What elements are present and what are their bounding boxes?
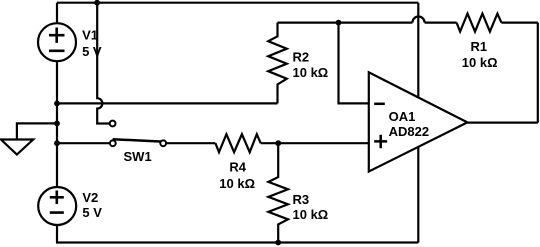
- wire R2 top to R1 line (left of hop): [278, 22, 413, 24]
- wire V1 top stem: [56, 3, 58, 24]
- svg-text:OA1: OA1: [389, 109, 416, 124]
- junction dot top rail to switch branch: [94, 0, 100, 6]
- wire hop to R1 left lead: [425, 22, 457, 24]
- wire hop over supply vertical: [412, 16, 424, 22]
- wire op-amp output: [467, 121, 537, 123]
- svg-text:V1: V1: [82, 28, 98, 43]
- svg-text:5 V: 5 V: [82, 205, 102, 220]
- svg-text:SW1: SW1: [124, 149, 152, 164]
- wire left bus V1 bottom to V2 top: [56, 61, 58, 189]
- svg-text:R1: R1: [471, 39, 488, 54]
- svg-text:5 V: 5 V: [82, 44, 102, 59]
- wire R4 right lead to op-amp non-inverting input: [261, 142, 370, 144]
- junction dot bus at switch wire: [54, 140, 60, 146]
- wire bus to switch left contact: [57, 142, 113, 144]
- svg-text:V2: V2: [82, 190, 98, 205]
- switch SW1: [110, 121, 166, 147]
- op-amp OA1 AD822: [369, 72, 468, 171]
- junction dot on R1 line at inverting branch: [336, 20, 342, 26]
- svg-text:10 kΩ: 10 kΩ: [293, 65, 329, 80]
- voltage source V1: [38, 23, 76, 61]
- svg-text:R3: R3: [293, 192, 310, 207]
- wire right feedback rail: [537, 23, 539, 123]
- svg-text:AD822: AD822: [389, 124, 429, 139]
- wire inverting input branch from R1 line: [339, 23, 371, 104]
- resistor R2 10k vertical: [268, 23, 287, 104]
- wire ground branch: [17, 123, 57, 139]
- svg-text:R2: R2: [293, 50, 310, 65]
- svg-text:10 kΩ: 10 kΩ: [293, 207, 329, 222]
- wire ground-node horizontal to R2 bottom: [57, 102, 278, 104]
- junction dot R3 bottom on bottom rail: [275, 240, 281, 246]
- wire switch right contact to R4 left lead: [163, 142, 215, 144]
- ground symbol: [1, 140, 33, 155]
- svg-text:10 kΩ: 10 kΩ: [462, 55, 498, 70]
- junction dot bus at ground wire: [54, 101, 60, 107]
- resistor R4 10k horizontal: [215, 134, 260, 152]
- wire supply vertical rail (through op-amp V+ and V-): [417, 3, 419, 243]
- wire bottom rail: [56, 241, 418, 243]
- resistor R1 10k horizontal: [457, 14, 502, 32]
- junction dot R4/R3/non-inverting node: [275, 140, 281, 146]
- wire V1-to-switch branch with hop over ground wire: [97, 3, 111, 124]
- resistor R3 10k vertical: [268, 143, 288, 242]
- wire top rail from V1 top to supply corner: [57, 2, 418, 4]
- voltage source V2: [38, 187, 76, 225]
- wire V2 bottom stem: [56, 225, 58, 243]
- svg-text:10 kΩ: 10 kΩ: [219, 176, 255, 191]
- junction dot bus at ground branch: [54, 121, 60, 127]
- wire R1 right lead to right rail: [501, 22, 537, 24]
- svg-text:R4: R4: [229, 160, 246, 175]
